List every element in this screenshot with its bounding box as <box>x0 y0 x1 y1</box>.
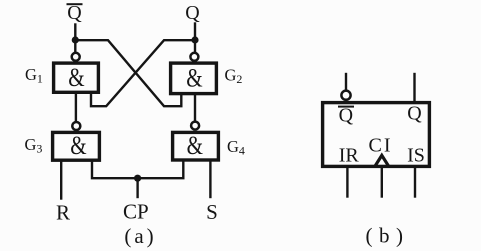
bubble G1 output <box>72 53 80 61</box>
svg-text:Q: Q <box>67 2 82 24</box>
wire Q-bar top (b) <box>345 74 347 92</box>
svg-text:R: R <box>56 201 70 225</box>
wire CI bottom stub <box>381 167 383 197</box>
svg-text:IR: IR <box>339 145 360 167</box>
wire Q vertical <box>194 24 196 53</box>
IC box (b) <box>323 103 430 167</box>
svg-text:G2: G2 <box>225 66 243 87</box>
bubble G4 output <box>191 122 199 130</box>
svg-text:S: S <box>206 200 218 224</box>
wire G1 output down to G3 bubble <box>75 94 77 122</box>
cross wire A: Q-bar node to G2 input <box>77 40 181 106</box>
wire R input <box>60 162 62 199</box>
bubble G3 output <box>72 122 80 130</box>
junction dot under Q <box>191 36 198 43</box>
svg-text:G3: G3 <box>25 135 43 156</box>
gate G1 box <box>54 63 99 92</box>
wire S input <box>209 160 211 197</box>
svg-text:(b): (b) <box>366 224 410 248</box>
wire G2 output down to G4 bubble <box>194 96 196 122</box>
svg-text:IS: IS <box>407 145 425 167</box>
svg-text:&: & <box>186 64 203 93</box>
svg-text:&: & <box>70 132 87 161</box>
svg-text:CI: CI <box>369 135 393 157</box>
svg-text:&: & <box>68 64 85 93</box>
wire Q-bar vertical <box>74 25 76 53</box>
dynamic input triangle CI <box>375 155 388 165</box>
bubble G2 output <box>190 53 198 61</box>
CP junction dot <box>134 175 141 182</box>
wire CP stub <box>136 178 138 197</box>
label Q-bar inside box <box>339 105 354 127</box>
junction dot under Q-bar <box>72 36 79 43</box>
wire Q top (b) <box>413 74 415 102</box>
CP rail wire <box>92 160 183 178</box>
svg-text:Q: Q <box>339 105 354 127</box>
gate G3 box <box>53 132 100 160</box>
svg-text:G4: G4 <box>227 137 245 158</box>
svg-text:(a): (a) <box>124 224 156 248</box>
cross wire B: Q node to G1 input <box>91 40 193 106</box>
svg-text:Q: Q <box>185 2 200 24</box>
wire IS bottom stub <box>414 167 416 197</box>
svg-text:Q: Q <box>407 103 422 125</box>
gate G4 box <box>173 132 219 160</box>
wire IR bottom stub <box>346 167 348 197</box>
bubble Q-bar output (b) <box>341 91 350 100</box>
svg-text:G1: G1 <box>25 65 43 86</box>
gate G2 box <box>171 63 217 94</box>
svg-text:CP: CP <box>123 200 149 224</box>
node Q-bar label <box>67 2 82 24</box>
svg-text:&: & <box>187 132 204 161</box>
